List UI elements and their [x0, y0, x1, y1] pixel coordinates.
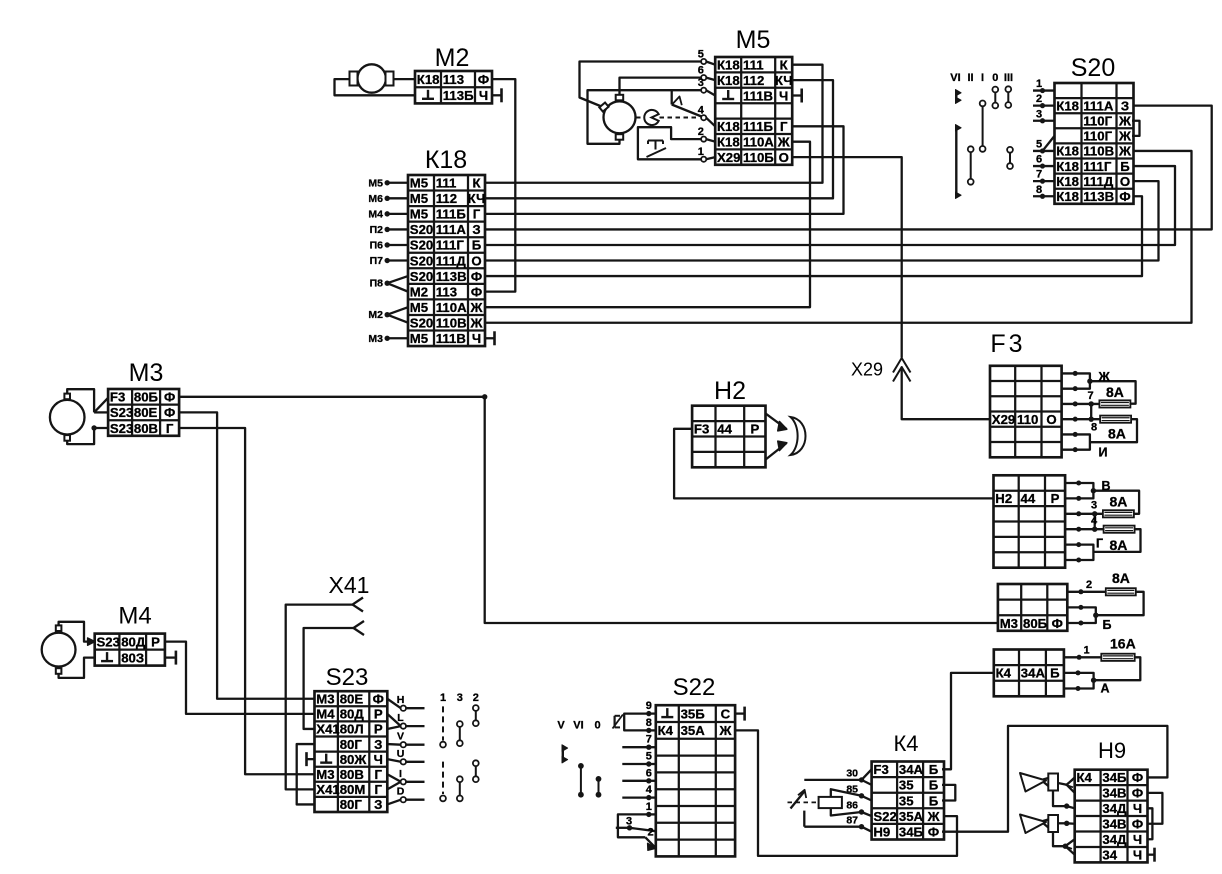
svg-text:2: 2: [698, 126, 704, 138]
svg-text:К4: К4: [893, 731, 918, 756]
connector table M2: [415, 71, 492, 103]
dashed link motor-cam-switch: [636, 117, 700, 119]
svg-text:35: 35: [899, 793, 914, 808]
svg-text:М5: М5: [368, 177, 383, 189]
svg-text:Ч: Ч: [1133, 847, 1142, 862]
svg-text:М5: М5: [410, 207, 428, 222]
svg-text:5: 5: [1036, 138, 1042, 150]
svg-text:Б: Б: [1050, 666, 1060, 681]
svg-text:6: 6: [698, 65, 704, 77]
svg-text:Ф: Ф: [164, 390, 175, 405]
svg-text:Г: Г: [375, 782, 383, 797]
svg-text:И: И: [1099, 446, 1108, 460]
connector table H2: [692, 406, 765, 468]
svg-text:Ж: Ж: [470, 315, 483, 330]
connector table F3 group 4: [994, 650, 1064, 697]
svg-text:34Б: 34Б: [1102, 770, 1127, 785]
wire net 35А (S22 to К4): [735, 730, 957, 856]
svg-text:Н9: Н9: [1098, 738, 1126, 763]
ground at S23 row 5: [307, 752, 315, 766]
F3 group 2 fuses 8А 8А, terminals В,3,4,Г: [1065, 479, 1140, 563]
svg-text:111: 111: [436, 176, 457, 191]
svg-text:Х29: Х29: [992, 412, 1015, 427]
svg-text:5: 5: [646, 751, 652, 763]
svg-text:F3: F3: [694, 422, 709, 437]
F3 group 4 fuse 16А, terminals 1,А: [1064, 636, 1140, 696]
wire net 111 (М5 К to К18): [485, 65, 823, 183]
svg-text:Р: Р: [750, 422, 759, 437]
wire net 34Б (К4 to Н9): [942, 726, 1167, 832]
svg-text:Х29: Х29: [851, 360, 883, 380]
svg-text:К: К: [472, 176, 481, 191]
svg-text:Г: Г: [166, 421, 174, 436]
svg-text:М5: М5: [410, 176, 428, 191]
svg-text:Р: Р: [1051, 491, 1060, 506]
S23 terminals H,L,V,U,I,D: [387, 694, 424, 804]
svg-text:S20: S20: [410, 222, 433, 237]
svg-text:П8: П8: [370, 278, 384, 290]
svg-text:112: 112: [743, 73, 764, 88]
connector table S20: [1055, 83, 1134, 204]
svg-text:S22: S22: [673, 674, 716, 701]
svg-text:80Л: 80Л: [340, 722, 364, 737]
fuse box F3 title: [990, 330, 1025, 358]
horn H2 symbol: [766, 413, 806, 459]
motor M5 (wiper motor) title: [736, 26, 771, 54]
svg-text:S23: S23: [110, 421, 133, 436]
connector table F3 group 1: [990, 366, 1062, 458]
svg-text:Х29: Х29: [717, 150, 740, 165]
svg-text:0: 0: [992, 72, 998, 84]
K4 jumper rows 2-3 (35): [942, 785, 955, 801]
horns H9 title: [1098, 738, 1126, 763]
svg-text:2: 2: [473, 692, 479, 704]
svg-text:VI: VI: [573, 720, 583, 732]
svg-text:6: 6: [1036, 154, 1042, 166]
svg-text:Ф: Ф: [478, 72, 489, 87]
svg-text:S20: S20: [410, 253, 433, 268]
H9 jumper rows 3-5 (34Д): [1148, 808, 1153, 839]
wire net 80Е (М3 to S23): [179, 412, 314, 698]
svg-text:111В: 111В: [743, 88, 773, 103]
svg-text:М5: М5: [410, 191, 428, 206]
svg-text:К18: К18: [717, 73, 740, 88]
svg-text:Ж: Ж: [1098, 370, 1111, 384]
svg-text:Ж: Ж: [1118, 144, 1131, 159]
svg-text:М3: М3: [129, 359, 164, 387]
S22 position diagram V VI 0: [557, 720, 601, 798]
svg-text:80В: 80В: [134, 421, 158, 436]
ground at M5 pin Ч: [792, 89, 802, 103]
svg-text:87: 87: [846, 815, 858, 827]
svg-text:З: З: [472, 222, 480, 237]
svg-text:III: III: [1004, 72, 1013, 84]
svg-text:35: 35: [899, 778, 914, 793]
svg-text:Н9: Н9: [873, 824, 890, 839]
svg-text:1: 1: [1084, 645, 1090, 657]
ground at K18 pin Ч: [485, 331, 495, 345]
wire net 111Д (К18 to S20): [485, 181, 1159, 260]
svg-text:Ж: Ж: [470, 300, 483, 315]
svg-text:О: О: [471, 253, 481, 268]
wire M4 motor to row 2: [59, 658, 95, 678]
svg-text:35Б: 35Б: [681, 706, 706, 721]
svg-text:М3: М3: [368, 333, 383, 345]
switch contact in M5 (park switch): [672, 90, 702, 116]
svg-text:Ж: Ж: [927, 809, 940, 824]
svg-text:2: 2: [1036, 93, 1042, 105]
thermal breaker in M5: [638, 127, 701, 159]
horn H9.2 wires to rows 5,6: [1053, 832, 1075, 855]
svg-text:111Г: 111Г: [436, 238, 465, 253]
svg-text:7: 7: [646, 734, 652, 746]
connector table M3: [108, 389, 179, 436]
wire M2 motor to pin table row 1: [394, 78, 416, 80]
svg-text:S23: S23: [326, 664, 369, 691]
svg-text:H: H: [397, 694, 405, 706]
svg-text:110: 110: [1017, 412, 1038, 427]
svg-text:КЧ: КЧ: [468, 191, 486, 206]
svg-text:113: 113: [443, 72, 464, 87]
svg-text:1: 1: [698, 146, 704, 158]
svg-text:К: К: [780, 57, 789, 72]
svg-text:Ф: Ф: [1119, 189, 1130, 204]
svg-text:Ф: Ф: [471, 269, 482, 284]
ground at S22 pin С: [735, 707, 745, 721]
svg-text:111А: 111А: [436, 222, 467, 237]
connector table M4: [95, 634, 165, 666]
wire net 110 (X29 to F3): [902, 367, 990, 419]
svg-text:Ф: Ф: [471, 284, 482, 299]
svg-text:S20: S20: [410, 238, 433, 253]
K18 pins М5,М6,М4,П2,П6,П7,П8,М2,М3: [368, 177, 408, 345]
svg-text:Б: Б: [1120, 159, 1130, 174]
svg-text:М2: М2: [410, 284, 428, 299]
svg-text:М4: М4: [316, 707, 335, 722]
svg-text:F3: F3: [873, 762, 888, 777]
svg-text:4: 4: [1091, 515, 1098, 527]
svg-text:К18: К18: [717, 57, 740, 72]
horn H9.1 symbol: [1020, 773, 1058, 792]
svg-text:8: 8: [1091, 422, 1097, 434]
svg-text:Ч: Ч: [1133, 801, 1142, 816]
relay K4 title: [893, 731, 918, 756]
svg-text:Н2: Н2: [995, 491, 1012, 506]
svg-text:80Д: 80Д: [340, 707, 365, 722]
svg-text:Х41: Х41: [329, 572, 370, 598]
svg-text:34В: 34В: [1102, 817, 1126, 832]
svg-text:113: 113: [436, 284, 457, 299]
svg-text:М2: М2: [368, 309, 383, 321]
wire net 111Б (М5 Г to К18): [485, 126, 844, 214]
connector table M5: [715, 57, 792, 165]
S20 jumper rows 3-4 (110Г): [1132, 121, 1140, 136]
svg-text:М3: М3: [316, 692, 334, 707]
svg-text:Р: Р: [151, 634, 160, 649]
svg-text:Б: Б: [1103, 618, 1112, 632]
svg-text:110А: 110А: [436, 300, 467, 315]
svg-text:З: З: [374, 737, 382, 752]
S22 wiper switch contact (pins 9-8): [613, 714, 649, 731]
relay K4 contact: [788, 780, 862, 827]
wire M2 motor return loop to row 2: [335, 79, 416, 95]
svg-text:L: L: [397, 712, 404, 724]
svg-text:111Б: 111Б: [743, 119, 774, 134]
svg-text:4: 4: [646, 784, 653, 796]
svg-text:44: 44: [1021, 491, 1036, 506]
svg-text:80Е: 80Е: [340, 692, 364, 707]
S20 switch position diagram VI II I 0 III: [950, 72, 1013, 199]
svg-text:44: 44: [717, 422, 732, 437]
svg-text:80Д: 80Д: [121, 634, 146, 649]
svg-text:111Б: 111Б: [436, 207, 467, 222]
connector X41 lower contact + wire net 80Л: [304, 621, 364, 729]
svg-text:7: 7: [1088, 390, 1094, 402]
connector table S23: [315, 691, 388, 812]
cam in M5: [644, 110, 658, 125]
svg-text:Ф: Ф: [1132, 786, 1143, 801]
wire M5 pin3 / chassis: [588, 90, 702, 144]
svg-text:З: З: [374, 797, 382, 812]
svg-text:111А: 111А: [1083, 98, 1114, 113]
svg-text:Г: Г: [375, 767, 383, 782]
svg-text:111: 111: [743, 57, 764, 72]
wire net 44 (Н2 to F3): [674, 429, 993, 499]
svg-text:34Б: 34Б: [899, 824, 924, 839]
svg-text:1: 1: [646, 801, 652, 813]
svg-text:М5: М5: [410, 331, 428, 346]
svg-text:П6: П6: [370, 239, 384, 251]
svg-text:Б: Б: [929, 778, 939, 793]
svg-text:Б: Б: [929, 762, 939, 777]
svg-text:Г: Г: [473, 207, 481, 222]
wire net 80Б (М3 to F3): [179, 394, 998, 623]
svg-text:К4: К4: [1077, 770, 1093, 785]
svg-text:К18: К18: [717, 119, 740, 134]
svg-text:Х41: Х41: [316, 782, 339, 797]
connector X29 label: [851, 360, 883, 380]
F3 group 1 fuses 8А 8А, terminals Ж,7,8,И: [1062, 370, 1137, 460]
connector table K4: [872, 762, 944, 840]
H9 jumper rows 2-4 (34В): [1148, 793, 1163, 824]
svg-text:34Д: 34Д: [1102, 801, 1127, 816]
svg-text:3: 3: [1091, 500, 1097, 512]
svg-text:34Д: 34Д: [1102, 832, 1127, 847]
S23 jumper rows 4-8 (80Г): [297, 744, 315, 804]
svg-text:Г: Г: [780, 119, 788, 134]
svg-text:О: О: [1046, 412, 1056, 427]
svg-text:О: О: [1120, 174, 1130, 189]
switch S20 title: [1071, 54, 1115, 82]
svg-text:Ж: Ж: [1118, 114, 1131, 129]
svg-text:Р: Р: [374, 722, 383, 737]
svg-text:111В: 111В: [436, 331, 466, 346]
horn H9.1 wire to row 3: [1053, 791, 1075, 809]
connector X41 upper contact + wire net 80М: [286, 598, 363, 790]
svg-text:М3: М3: [316, 767, 334, 782]
svg-text:К18: К18: [417, 72, 440, 87]
svg-text:F3: F3: [990, 330, 1025, 358]
svg-text:КЧ: КЧ: [775, 73, 793, 88]
relay K4 coil: [819, 789, 862, 815]
wire net 110А (М5 Ж to К18): [485, 142, 810, 307]
svg-text:Б: Б: [472, 238, 482, 253]
S20 pins 1,2,3,5,6,7,8: [1033, 78, 1055, 199]
svg-text:111Д: 111Д: [1083, 174, 1114, 189]
horn H9.1 wires to rows 1,2: [1058, 777, 1075, 792]
S23 position diagram 1 3 2: [440, 692, 479, 801]
svg-text:34А: 34А: [1021, 666, 1046, 681]
svg-text:Р: Р: [374, 707, 383, 722]
horn H2 title: [714, 377, 746, 405]
svg-text:К18: К18: [1056, 144, 1079, 159]
svg-text:П2: П2: [370, 224, 384, 236]
svg-text:8А: 8А: [1108, 426, 1126, 442]
svg-text:6: 6: [646, 767, 652, 779]
wire net 111А (К18 to S20): [485, 106, 1212, 230]
motor M4 symbol: [42, 625, 76, 673]
motor M3 symbol: [50, 394, 85, 441]
svg-text:К18: К18: [1056, 174, 1079, 189]
connector table H9: [1075, 770, 1148, 863]
svg-text:I: I: [981, 72, 984, 84]
svg-text:2: 2: [1086, 579, 1092, 591]
svg-text:Ф: Ф: [1132, 770, 1143, 785]
svg-text:Ж: Ж: [777, 134, 790, 149]
svg-text:S20: S20: [1071, 54, 1115, 82]
svg-text:I: I: [399, 768, 402, 780]
svg-text:К4: К4: [996, 666, 1012, 681]
svg-text:35А: 35А: [899, 809, 924, 824]
wire net 112 (М5 КЧ to К18): [485, 80, 833, 198]
svg-text:К18: К18: [425, 146, 467, 174]
svg-text:II: II: [967, 72, 973, 84]
svg-text:30: 30: [846, 768, 858, 780]
svg-text:80Б: 80Б: [134, 390, 159, 405]
svg-text:3: 3: [698, 77, 704, 89]
svg-text:Ч: Ч: [479, 88, 488, 103]
svg-text:1: 1: [440, 692, 446, 704]
svg-text:Ф: Ф: [164, 405, 175, 420]
svg-text:К18: К18: [1056, 189, 1079, 204]
svg-text:М5: М5: [410, 300, 428, 315]
motor M2 symbol: [350, 64, 394, 92]
wire net 80Д (М4 to S23): [165, 642, 315, 714]
svg-text:М2: М2: [435, 44, 470, 72]
svg-text:Ч: Ч: [472, 331, 481, 346]
F3 group 3 fuse 8А, terminals 2,Б: [1067, 570, 1143, 632]
ground at H9 row 6: [1148, 848, 1155, 862]
wire net 80В (М3 to S23): [179, 428, 314, 774]
svg-text:80Б: 80Б: [1023, 616, 1048, 631]
svg-text:5: 5: [698, 49, 704, 61]
svg-text:Ф: Ф: [928, 824, 939, 839]
svg-text:16А: 16А: [1110, 636, 1136, 652]
ground at M2 pin Ч: [492, 88, 502, 102]
svg-text:80З: 80З: [121, 650, 144, 665]
svg-text:Ж: Ж: [1118, 129, 1131, 144]
wire net 113 (М2 to К18): [485, 79, 515, 292]
svg-text:F3: F3: [110, 390, 125, 405]
svg-text:80Г: 80Г: [340, 737, 363, 752]
svg-text:8: 8: [646, 717, 652, 729]
svg-text:111Д: 111Д: [436, 253, 467, 268]
svg-text:D: D: [397, 786, 405, 798]
svg-text:S20: S20: [410, 315, 433, 330]
svg-text:Ч: Ч: [1133, 832, 1142, 847]
svg-text:1: 1: [1036, 78, 1042, 90]
motor M5 symbol: [599, 95, 635, 140]
svg-text:М4: М4: [368, 208, 383, 220]
svg-text:Б: Б: [929, 793, 939, 808]
svg-text:8А: 8А: [1112, 570, 1130, 586]
svg-text:80М: 80М: [340, 782, 366, 797]
svg-text:86: 86: [846, 800, 858, 812]
wire M3 motor to rows 1,2: [67, 389, 108, 412]
svg-text:34А: 34А: [899, 762, 924, 777]
motor M4 (washer pump) title: [118, 603, 151, 630]
svg-text:112: 112: [436, 191, 457, 206]
wire net 110В (К18 to S20): [485, 151, 1192, 323]
svg-text:С: С: [721, 706, 731, 721]
wire M4 motor to row 1: [59, 622, 96, 646]
svg-text:U: U: [397, 748, 405, 760]
svg-text:М6: М6: [368, 193, 383, 205]
svg-text:А: А: [1101, 682, 1110, 696]
svg-text:110Г: 110Г: [1083, 114, 1112, 129]
svg-text:М5: М5: [736, 26, 771, 54]
svg-text:110В: 110В: [1083, 144, 1114, 159]
svg-text:Ж: Ж: [718, 723, 731, 738]
motor M2 (windscreen washer pump) title: [435, 44, 470, 72]
svg-text:8А: 8А: [1110, 494, 1128, 510]
svg-text:Х41: Х41: [316, 722, 339, 737]
motor M3 (heater blower) title: [129, 359, 164, 387]
svg-text:34: 34: [1102, 847, 1117, 862]
horn H9.2 wire to row 4: [1058, 821, 1075, 826]
svg-text:К4: К4: [658, 723, 674, 738]
svg-text:0: 0: [594, 720, 600, 732]
wire net 113В (К18 to S20): [485, 196, 1142, 276]
svg-text:8А: 8А: [1106, 384, 1124, 400]
S22 washer switch contact (pins 1-3-2): [618, 814, 656, 850]
svg-text:VI: VI: [950, 72, 960, 84]
svg-text:110Г: 110Г: [1083, 129, 1112, 144]
svg-text:80В: 80В: [340, 767, 364, 782]
svg-text:110В: 110В: [436, 315, 467, 330]
ground at M4 row 2: [165, 651, 176, 665]
svg-text:К18: К18: [1056, 159, 1079, 174]
svg-text:113Б: 113Б: [443, 88, 474, 103]
svg-text:V: V: [557, 720, 565, 732]
svg-text:Ч: Ч: [779, 88, 788, 103]
svg-text:П7: П7: [370, 255, 384, 267]
horn H9.2 symbol: [1020, 815, 1058, 834]
S22 pins 9,8,7,5,6,4,1,3,2: [616, 700, 656, 838]
switch S23 title: [326, 664, 369, 691]
wire M5 pin5 to brush: [580, 62, 702, 107]
svg-text:Н2: Н2: [714, 377, 746, 405]
svg-text:111Г: 111Г: [1083, 159, 1112, 174]
svg-text:113В: 113В: [436, 269, 467, 284]
svg-text:В: В: [1102, 479, 1111, 493]
svg-text:М3: М3: [1000, 616, 1018, 631]
connector table F3 group 2: [994, 475, 1066, 567]
svg-text:80Г: 80Г: [340, 797, 363, 812]
svg-text:О: О: [779, 150, 789, 165]
svg-text:34В: 34В: [1102, 786, 1126, 801]
wire net 34А (К4 to F3): [942, 673, 994, 769]
